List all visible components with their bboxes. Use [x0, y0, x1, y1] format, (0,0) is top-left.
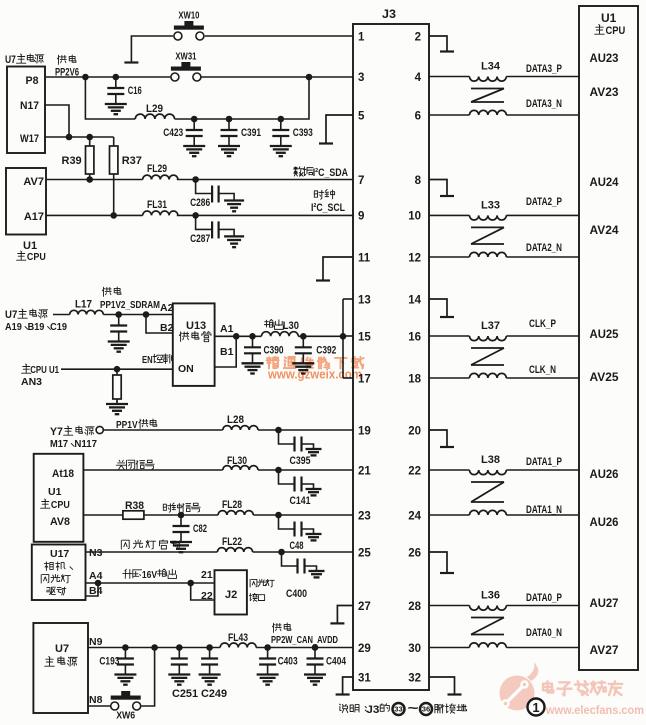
wire W17	[45, 136, 114, 138]
inductor FL28	[218, 499, 253, 515]
svg-text:A1: A1	[220, 323, 234, 335]
svg-text:R37: R37	[122, 155, 142, 167]
svg-text:FL30: FL30	[227, 455, 247, 467]
net label flash enable	[121, 540, 181, 549]
junction	[192, 212, 199, 219]
svg-text:C395: C395	[290, 455, 311, 467]
ground stub pin20	[429, 430, 454, 447]
wire N9 to FL43	[88, 647, 220, 649]
svg-text:C392: C392	[316, 344, 336, 356]
svg-text:17: 17	[358, 373, 371, 385]
net label PP1V2_SDRAM	[100, 287, 160, 311]
wire R38 to FL28	[144, 514, 218, 516]
svg-text:FL43: FL43	[228, 632, 248, 644]
svg-text:C390: C390	[264, 344, 284, 356]
svg-text:C391: C391	[241, 127, 261, 139]
pin label A1 B1	[220, 323, 234, 358]
svg-text:AU24: AU24	[590, 175, 619, 189]
wire FL22 to J3 pin 25	[253, 551, 353, 553]
ground	[306, 534, 322, 540]
svg-text:A4: A4	[89, 570, 103, 582]
ground	[224, 201, 244, 212]
wire L17 to U13 A2	[103, 314, 173, 316]
svg-text:P8: P8	[26, 75, 39, 87]
junction	[275, 512, 282, 519]
ground	[270, 146, 292, 156]
svg-text:25: 25	[358, 547, 371, 559]
wire FL31 to J3 pin 9	[177, 214, 353, 216]
switch XW6	[111, 691, 141, 722]
capacitor C395	[279, 430, 314, 467]
connector J3	[353, 7, 429, 690]
junction	[312, 644, 319, 651]
junction	[95, 580, 102, 587]
wire to choke	[429, 605, 470, 607]
ground	[304, 675, 326, 685]
svg-text:C193: C193	[99, 656, 119, 668]
svg-text:C251: C251	[172, 688, 198, 700]
net label DATA3_N	[526, 98, 562, 110]
common-mode choke L36	[470, 590, 507, 648]
wire DATA1_P	[506, 469, 579, 471]
ground stub pin8	[429, 180, 454, 197]
wire AV8 to R38	[83, 514, 123, 516]
wire Y7 to L28	[103, 429, 223, 431]
net label CLK_N	[529, 364, 556, 376]
ground	[309, 571, 325, 577]
svg-text:6: 6	[415, 110, 421, 122]
svg-text:23: 23	[358, 510, 371, 522]
pin label A2 B2	[160, 302, 174, 334]
svg-text:15: 15	[358, 331, 371, 343]
svg-text:19: 19	[358, 425, 371, 437]
junction	[151, 644, 158, 651]
ground	[199, 675, 221, 685]
junction	[122, 644, 129, 651]
svg-text:U7: U7	[55, 643, 69, 655]
wire XW31 to J3 pin 3	[201, 76, 353, 78]
svg-text:N8: N8	[89, 694, 103, 706]
svg-text:AV8: AV8	[50, 516, 70, 528]
net label DATA1_N	[526, 504, 562, 516]
svg-text:R38: R38	[125, 500, 144, 512]
IC U1 main CPU (right)	[579, 6, 638, 670]
net label EN control / main CPU AN3	[21, 354, 172, 388]
net label DATA3_P	[526, 63, 562, 75]
svg-text:ON: ON	[178, 363, 194, 375]
svg-text:C403: C403	[278, 656, 298, 668]
junction	[249, 333, 256, 340]
svg-text:1: 1	[532, 700, 539, 715]
value label C251	[172, 688, 198, 700]
net label PP2V6	[55, 55, 79, 79]
junction	[275, 467, 282, 474]
ground	[105, 104, 127, 114]
capacitor C400	[282, 552, 317, 600]
ground	[257, 675, 279, 685]
ground	[218, 146, 240, 156]
inductor FL30	[223, 455, 258, 470]
wire L29 to pin3 net	[175, 77, 310, 119]
note circled 1	[528, 699, 545, 716]
svg-text:L30: L30	[283, 320, 299, 332]
svg-text:CLK_P: CLK_P	[529, 318, 556, 330]
wire DATA3_N	[506, 114, 579, 116]
svg-text:N9: N9	[89, 636, 103, 648]
wire to choke	[429, 76, 470, 78]
svg-text:31: 31	[358, 672, 371, 684]
svg-text:R39: R39	[62, 155, 82, 167]
svg-text:C16: C16	[128, 85, 142, 97]
wire R39 to AV7 net	[89, 174, 91, 180]
IC U13 power manager	[173, 303, 215, 386]
svg-text:4: 4	[415, 72, 422, 84]
capacitor C404	[307, 648, 347, 675]
svg-text:EN: EN	[142, 354, 153, 366]
svg-text:C400: C400	[286, 588, 307, 600]
wire A17 to FL31	[46, 214, 143, 216]
svg-text:5: 5	[358, 110, 365, 122]
net label clock signal	[163, 503, 200, 512]
wire L28 to J3 pin 19	[258, 429, 353, 431]
watermark gzweix	[267, 357, 364, 382]
wire to J3 pin 15	[343, 335, 353, 337]
junction	[264, 644, 271, 651]
junction	[114, 366, 121, 373]
ground	[306, 449, 322, 455]
svg-text:C393: C393	[293, 127, 313, 139]
svg-text:AU23: AU23	[590, 51, 619, 65]
svg-text:CPU: CPU	[51, 499, 70, 511]
ground stub pin2	[429, 36, 454, 52]
net label close signal	[116, 460, 154, 469]
junction	[113, 74, 120, 81]
svg-text:DATA2_N: DATA2_N	[526, 242, 562, 254]
wire P8 to XW31	[45, 76, 171, 78]
wire to J3 pin 17	[343, 377, 353, 379]
svg-text:J3: J3	[382, 7, 396, 21]
svg-text:36: 36	[422, 707, 431, 714]
ground	[183, 146, 205, 156]
wire At18 to FL30	[83, 469, 222, 471]
svg-text:At18: At18	[52, 468, 74, 480]
wire AV7 to FL29	[46, 179, 143, 181]
net label DATA0_N	[526, 627, 562, 639]
junction	[340, 333, 347, 340]
wire to choke	[429, 256, 470, 258]
svg-text:FL22: FL22	[222, 536, 242, 548]
svg-text:I²C_SDA: I²C_SDA	[313, 167, 348, 179]
wire W17 to R37	[113, 137, 115, 146]
wire to choke	[429, 214, 470, 216]
svg-text:21: 21	[201, 569, 213, 581]
capacitor	[110, 315, 127, 342]
svg-text:16: 16	[408, 331, 421, 343]
wire DATA0_N	[506, 647, 579, 649]
svg-text:L37: L37	[481, 320, 500, 332]
svg-text:A2: A2	[160, 302, 174, 314]
junction	[110, 212, 117, 219]
capacitor C390	[244, 336, 284, 363]
svg-text:DATA3_N: DATA3_N	[526, 98, 562, 110]
junction	[233, 333, 240, 340]
svg-text:U13: U13	[186, 320, 206, 332]
svg-text:N3: N3	[89, 547, 103, 559]
svg-text:32: 32	[408, 672, 421, 684]
svg-text:N117: N117	[74, 438, 97, 450]
wire CLK_N	[506, 377, 579, 379]
svg-text:C19: C19	[50, 321, 67, 333]
svg-text:L33: L33	[481, 199, 500, 211]
ground	[108, 342, 130, 352]
wire U7 to L17	[53, 314, 70, 316]
svg-text:33: 33	[394, 707, 403, 714]
svg-text:L17: L17	[75, 299, 92, 311]
junction	[278, 549, 285, 556]
svg-text:L28: L28	[227, 414, 244, 426]
svg-text:C404: C404	[326, 656, 347, 668]
wire DATA2_P	[506, 214, 579, 216]
svg-text:C286: C286	[190, 197, 210, 209]
svg-text:L34: L34	[481, 61, 501, 73]
svg-text:XW10: XW10	[178, 11, 199, 22]
svg-text:AU27: AU27	[590, 596, 619, 610]
junction	[66, 134, 73, 141]
junction	[300, 333, 307, 340]
svg-text:AN3: AN3	[21, 376, 42, 388]
junction	[278, 116, 285, 123]
ground	[170, 542, 192, 552]
svg-text:30: 30	[408, 643, 421, 655]
svg-text:FL29: FL29	[147, 163, 167, 175]
inductor L28	[223, 414, 258, 430]
switch XW10	[174, 11, 204, 41]
switch XW31	[171, 52, 201, 82]
svg-text:Y7: Y7	[50, 426, 63, 438]
wire FL29 to J3 pin 7	[177, 179, 353, 181]
svg-text:L29: L29	[146, 103, 163, 115]
wire XW6 to N9 net	[142, 648, 155, 707]
junction	[191, 116, 198, 123]
power source U7 (bottom left)	[33, 623, 88, 713]
wire U13 A1 to L30	[215, 335, 262, 337]
common-mode choke L33	[470, 199, 507, 257]
svg-text:CPU: CPU	[27, 251, 46, 263]
watermark elecfans	[500, 662, 645, 717]
svg-text:21: 21	[358, 465, 371, 477]
inductor L17	[70, 299, 104, 315]
connector J2	[201, 569, 274, 615]
svg-text:PP2W_CAN_AVDD: PP2W_CAN_AVDD	[271, 634, 338, 646]
net label U7 main power	[5, 309, 67, 333]
svg-text:L36: L36	[481, 590, 500, 602]
ground	[168, 675, 190, 685]
ground stub pin31	[336, 677, 353, 695]
svg-text:CPU U1: CPU U1	[30, 364, 59, 376]
capacitor C392	[295, 336, 337, 363]
svg-text:DATA1_N: DATA1_N	[526, 504, 562, 516]
svg-text:8: 8	[415, 175, 422, 187]
svg-text:AU25: AU25	[590, 327, 619, 341]
svg-text:DATA0_P: DATA0_P	[526, 592, 562, 604]
svg-text:C82: C82	[193, 523, 207, 535]
J3 pin numbers	[358, 31, 422, 684]
wire FL28 to J3 pin 23	[253, 514, 353, 516]
junction	[206, 644, 213, 651]
capacitor C391	[221, 119, 262, 146]
common-mode choke L37	[470, 320, 507, 378]
capacitor C16	[107, 77, 142, 104]
svg-text:C423: C423	[163, 127, 183, 139]
svg-text:1: 1	[358, 31, 365, 43]
svg-text:10: 10	[408, 211, 421, 223]
net label PP2W_CAN_AVDD	[271, 623, 338, 646]
junction	[115, 311, 122, 318]
wire to J2 pin 22	[191, 583, 215, 600]
svg-text:L38: L38	[481, 454, 500, 466]
ground stub pin11	[316, 257, 353, 281]
net label PP1V	[116, 419, 157, 431]
wire N3 to FL22	[86, 551, 218, 553]
note J3 pins 33-36 grounded	[340, 700, 467, 717]
wire L30 to J3	[298, 335, 343, 337]
U1 pin labels	[590, 51, 619, 657]
capacitor C287	[190, 215, 234, 245]
junction	[275, 427, 282, 434]
value label C249	[201, 688, 227, 700]
wire to choke	[429, 114, 470, 116]
IC U1 main CPU (At18)	[34, 454, 84, 542]
capacitor C423	[163, 119, 203, 146]
svg-text:14: 14	[408, 294, 421, 306]
junction	[82, 74, 89, 81]
svg-text:~: ~	[408, 700, 419, 716]
wire XW10 to J3 pin 1	[205, 35, 353, 37]
net label DATA2_N	[526, 242, 562, 254]
svg-text:www.gzweix.com: www.gzweix.com	[267, 368, 362, 382]
svg-text:FL31: FL31	[147, 199, 167, 211]
svg-text:www.elecfans.com: www.elecfans.com	[545, 703, 644, 717]
inductor L29	[135, 103, 174, 119]
wire to U13 B2	[146, 315, 173, 334]
net label I2C_SDA	[294, 167, 348, 179]
svg-text:29: 29	[358, 643, 371, 655]
svg-text:U1: U1	[601, 11, 617, 25]
svg-text:C48: C48	[290, 540, 304, 552]
IC U1 main CPU (left)	[6, 168, 46, 263]
svg-text:B19: B19	[28, 321, 45, 333]
junction	[192, 176, 199, 183]
wire to J3 pin 13	[343, 298, 353, 300]
wire DATA3_P	[506, 76, 579, 78]
resistor R37	[110, 146, 142, 174]
svg-text:28: 28	[408, 601, 421, 613]
capacitor C141	[279, 470, 314, 507]
svg-text:DATA0_N: DATA0_N	[526, 627, 562, 639]
capacitor C403	[259, 648, 298, 675]
wire W17 to R39	[89, 137, 91, 146]
wire to pulldown resistor	[116, 369, 118, 375]
svg-text:N17: N17	[20, 100, 39, 112]
junction	[86, 134, 93, 141]
junction	[178, 512, 185, 519]
svg-text:B2: B2	[160, 322, 174, 334]
net label DATA1_P	[526, 456, 562, 468]
svg-text:AV25: AV25	[590, 370, 619, 384]
svg-text:24: 24	[408, 510, 421, 522]
ground	[224, 236, 244, 247]
wire bracket pins 13-17	[342, 299, 344, 378]
wire to choke	[429, 514, 470, 516]
svg-text:C249: C249	[201, 688, 227, 700]
svg-text:U17: U17	[50, 548, 69, 560]
ground	[292, 363, 314, 373]
wire A4 to J2 pin 21	[86, 582, 215, 584]
net label I2C_SCL	[311, 190, 345, 215]
svg-text:AV24: AV24	[590, 223, 619, 237]
svg-text:J2: J2	[225, 589, 237, 601]
wire FL30 to J3 pin 21	[258, 469, 353, 471]
svg-text:DATA3_P: DATA3_P	[526, 63, 562, 75]
capacitor	[171, 648, 188, 675]
junction	[176, 644, 183, 651]
svg-text:CPU: CPU	[605, 25, 625, 37]
svg-text:J3: J3	[366, 704, 379, 716]
ground	[114, 675, 136, 685]
svg-text:2: 2	[415, 31, 421, 43]
svg-text:A19: A19	[5, 321, 22, 333]
ground	[242, 363, 264, 373]
svg-text:3: 3	[358, 72, 364, 84]
svg-text:AV23: AV23	[590, 85, 619, 99]
svg-text:16V: 16V	[142, 569, 157, 581]
svg-text:AU26: AU26	[590, 467, 619, 481]
junction	[143, 311, 150, 318]
svg-text:9: 9	[358, 211, 364, 223]
svg-text:AV7: AV7	[23, 176, 44, 188]
svg-text:7: 7	[358, 175, 364, 187]
net label CLK_P	[529, 318, 556, 330]
wire U13 B1 join	[215, 336, 237, 367]
inductor FL31	[143, 199, 178, 215]
wire PP2V6 to L29	[85, 77, 135, 119]
wire to choke	[429, 647, 470, 649]
wire N17	[45, 105, 69, 137]
ground stub pin27	[330, 606, 353, 624]
capacitor C82	[173, 515, 208, 542]
inductor FL43	[220, 632, 256, 648]
svg-text:M17: M17	[50, 438, 68, 450]
capacitor C393	[272, 119, 313, 146]
svg-text:18: 18	[408, 373, 421, 385]
svg-text:DATA1_P: DATA1_P	[526, 456, 562, 468]
svg-text:C141: C141	[290, 495, 311, 507]
capacitor	[201, 648, 218, 675]
wire R37 to A17 net	[113, 174, 115, 215]
svg-text:I²C_SCL: I²C_SCL	[311, 202, 345, 214]
IC U17 camera flash driver	[32, 545, 86, 601]
junction	[187, 580, 194, 587]
svg-text:27: 27	[358, 601, 371, 613]
svg-text:CLK_N: CLK_N	[529, 364, 556, 376]
ground	[306, 489, 322, 495]
svg-text:20: 20	[408, 425, 421, 437]
net label DATA2_P	[526, 196, 562, 208]
svg-text:26: 26	[408, 547, 421, 559]
pin label N3 A4 B4	[89, 547, 103, 597]
common-mode choke L34	[470, 61, 507, 116]
wire DATA1_N	[506, 514, 579, 516]
